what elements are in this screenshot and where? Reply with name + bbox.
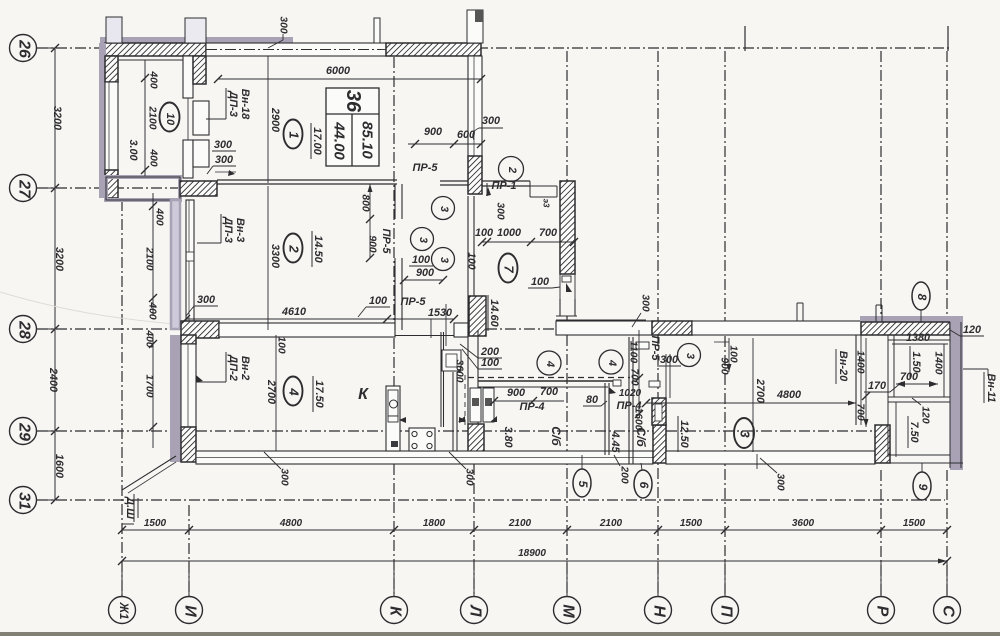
- right wall window band (x468): [468, 56, 482, 156]
- svg-text:100: 100: [276, 336, 287, 353]
- svg-text:Вн-18: Вн-18: [239, 89, 251, 120]
- dim 120 loggia top: [950, 324, 984, 336]
- svg-text:700: 700: [540, 386, 558, 398]
- svg-text:300: 300: [660, 354, 678, 366]
- door mark circle 2: [499, 157, 524, 182]
- bottom exterior wall left section: [196, 451, 653, 464]
- svg-text:1500: 1500: [144, 518, 167, 529]
- svg-text:29: 29: [16, 422, 33, 441]
- svg-text:3.80: 3.80: [502, 426, 514, 447]
- axis column К line: [393, 57, 395, 596]
- corridor west partition: [468, 196, 474, 330]
- svg-text:К: К: [387, 606, 404, 617]
- dim 300 lobby: [657, 354, 681, 366]
- svg-text:1700: 1700: [144, 375, 155, 398]
- label PR-1: [486, 180, 517, 196]
- dim 170 loggia: [864, 380, 902, 392]
- svg-text:2100: 2100: [508, 518, 532, 529]
- svg-text:3: 3: [438, 206, 450, 212]
- svg-text:120: 120: [920, 406, 931, 423]
- left wall purple halo upper: [99, 43, 106, 198]
- dim 300 row28 left: [186, 294, 218, 316]
- svg-text:400: 400: [148, 70, 159, 88]
- room10 inner top edge: [118, 59, 183, 61]
- dim 6000 line: [214, 65, 485, 83]
- apartment east wall at loggia: [856, 335, 861, 425]
- room ellipse 10: [160, 103, 180, 132]
- svg-text:2100: 2100: [147, 106, 158, 130]
- svg-text:200: 200: [619, 465, 630, 483]
- svg-text:2100: 2100: [599, 518, 623, 529]
- bathroom west pier hatch: [468, 424, 484, 462]
- svg-text:4: 4: [544, 360, 556, 367]
- axis column Н line: [657, 51, 659, 596]
- svg-text:4610: 4610: [281, 306, 306, 318]
- svg-text:3200: 3200: [53, 247, 65, 271]
- axis column circle Ж1: [109, 561, 136, 624]
- room ellipse 3: [734, 418, 754, 448]
- svg-text:28: 28: [16, 320, 33, 339]
- left exterior wall hatch top: [105, 56, 118, 82]
- svg-text:9: 9: [916, 484, 930, 491]
- axis row circle 31: [10, 487, 56, 514]
- left exterior wall hatch bottom: [105, 170, 118, 198]
- svg-text:6: 6: [637, 482, 651, 489]
- kitchen-bath wall: [468, 330, 478, 424]
- svg-text:П: П: [718, 605, 735, 617]
- svg-text:700: 700: [900, 371, 918, 383]
- bath6 door jamb: [609, 380, 621, 394]
- kitchen duct lines: [441, 332, 457, 451]
- vestibule door opening: [560, 274, 575, 299]
- svg-text:14.60: 14.60: [488, 299, 500, 327]
- svg-text:8: 8: [915, 294, 929, 301]
- room10 window line: [187, 98, 189, 140]
- svg-text:4800: 4800: [776, 389, 801, 401]
- svg-text:2400: 2400: [47, 367, 59, 392]
- faint scan curve: [0, 292, 260, 330]
- dim 2700 room4: [265, 335, 277, 451]
- svg-text:900: 900: [416, 267, 434, 279]
- svg-text:17.00: 17.00: [311, 127, 323, 155]
- svg-text:э3: э3: [542, 199, 551, 208]
- svg-text:ДП-3: ДП-3: [227, 90, 239, 117]
- svg-text:300: 300: [464, 468, 475, 485]
- room ellipse 2: [284, 234, 303, 263]
- axis column circle С: [934, 561, 961, 624]
- svg-text:ПР-5: ПР-5: [412, 162, 438, 174]
- svg-text:17.50: 17.50: [313, 380, 325, 408]
- left wall dim chain rooms: [144, 193, 165, 320]
- svg-text:44.00: 44.00: [331, 121, 348, 160]
- svg-text:И: И: [182, 605, 199, 617]
- axis column Л line: [473, 51, 475, 596]
- svg-text:14.50: 14.50: [312, 235, 324, 263]
- svg-text:120: 120: [963, 324, 981, 336]
- label Vn-20: [836, 349, 849, 384]
- svg-text:700: 700: [539, 227, 557, 239]
- big room top wall purple: [860, 316, 963, 322]
- svg-text:ПР-4: ПР-4: [519, 401, 544, 413]
- duct niche marks: [636, 342, 660, 387]
- room1 area 17.00: [311, 123, 323, 159]
- axis column circle Р: [868, 561, 895, 624]
- svg-text:ДП-2: ДП-2: [227, 354, 239, 381]
- room10 dim chain: [141, 60, 159, 176]
- svg-text:3: 3: [684, 353, 696, 359]
- axis row circle 29: [10, 418, 56, 445]
- wall stub above x374: [374, 18, 380, 43]
- axis column М line: [566, 51, 568, 596]
- svg-text:1800: 1800: [423, 518, 446, 529]
- apartment stamp box: [326, 88, 379, 166]
- dim 200 bath: [614, 455, 630, 484]
- svg-text:Л: Л: [467, 605, 484, 618]
- svg-text:400: 400: [147, 301, 158, 319]
- dim 300 leader row28 right: [632, 294, 651, 327]
- dim 3600 kitchen: [454, 360, 466, 429]
- svg-text:100: 100: [466, 252, 477, 269]
- kitchen door arrows: [399, 417, 466, 423]
- svg-text:Р: Р: [874, 606, 891, 617]
- axis column circle П: [712, 561, 739, 624]
- svg-text:3600: 3600: [454, 360, 465, 383]
- door jamb room1 left lower: [193, 140, 209, 167]
- svg-text:300: 300: [214, 139, 232, 151]
- dim 100 1000 700: [475, 227, 578, 246]
- dim 120 loggia9: [912, 398, 931, 424]
- svg-text:3: 3: [738, 430, 753, 438]
- left exterior wall window band: [105, 82, 118, 170]
- left parapet purple band: [171, 200, 180, 329]
- vestibule notch: [530, 181, 557, 197]
- top wall purple halo: [100, 37, 293, 44]
- vestibule east wall hatch: [560, 181, 575, 274]
- svg-text:ПР-1: ПР-1: [491, 180, 516, 192]
- dim 1380 loggia8: [892, 332, 948, 344]
- svg-text:1400: 1400: [933, 352, 944, 375]
- svg-text:Вн-2: Вн-2: [239, 356, 251, 380]
- dim 800-900 room2: [360, 184, 378, 262]
- svg-text:4: 4: [287, 387, 302, 396]
- axis row circle 26: [10, 35, 56, 62]
- wall stub above x467: [467, 10, 483, 43]
- svg-text:10: 10: [164, 113, 176, 126]
- svg-text:700: 700: [855, 403, 866, 420]
- svg-text:5: 5: [576, 481, 590, 488]
- svg-text:85.10: 85.10: [359, 121, 376, 159]
- door swing mark kitchen: [196, 375, 203, 382]
- room10 right wall upper: [183, 56, 193, 98]
- axis column И line: [188, 505, 190, 596]
- svg-text:3600: 3600: [792, 518, 815, 529]
- svg-text:900: 900: [424, 126, 442, 138]
- svg-text:2700: 2700: [754, 378, 766, 403]
- duct inner slot: [655, 404, 662, 421]
- svg-text:1020: 1020: [619, 388, 642, 399]
- svg-text:400: 400: [148, 148, 159, 166]
- window stub x797: [797, 303, 803, 321]
- big room west line: [752, 338, 754, 452]
- dim 200 100 kitchen: [460, 344, 502, 369]
- label Vn-2 DP-2: [196, 352, 251, 382]
- dim 2900 room1: [268, 56, 281, 183]
- room ellipse 8: [912, 282, 930, 323]
- vestibule top partition: [482, 181, 530, 186]
- svg-text:3: 3: [438, 257, 450, 263]
- svg-text:3: 3: [417, 237, 429, 243]
- svg-text:2: 2: [506, 166, 518, 173]
- pier right of room 10: [193, 56, 206, 84]
- top exterior wall window band (x206-386): [206, 43, 386, 56]
- svg-text:400: 400: [144, 329, 155, 347]
- svg-text:Вн-20: Вн-20: [837, 351, 849, 382]
- svg-text:1530: 1530: [428, 307, 452, 319]
- bottom dimension chain line: [118, 526, 951, 534]
- svg-text:27: 27: [16, 179, 33, 199]
- svg-text:3.00: 3.00: [127, 139, 139, 160]
- lower left wall purple band: [170, 335, 181, 462]
- svg-text:31: 31: [16, 492, 33, 510]
- label Vn-11: [963, 369, 997, 403]
- svg-text:170: 170: [868, 380, 886, 392]
- loggia8 area 1.50: [910, 346, 922, 378]
- svg-text:300: 300: [197, 294, 215, 306]
- svg-text:4.45: 4.45: [609, 430, 621, 453]
- wall pier x469 y296-336: [469, 296, 486, 336]
- svg-text:600: 600: [457, 129, 475, 141]
- top exterior wall hatched right (x386-481): [386, 43, 481, 56]
- kitchen sink column: [386, 386, 400, 451]
- svg-text:2100: 2100: [144, 247, 155, 271]
- wall stub above x185: [185, 18, 206, 43]
- door mark circle 3 bigroom: [678, 344, 701, 367]
- svg-text:7: 7: [502, 265, 517, 273]
- svg-text:900: 900: [367, 235, 378, 252]
- dim 900 600 top: [408, 126, 485, 148]
- svg-text:7.50: 7.50: [908, 421, 920, 442]
- svg-text:3200: 3200: [51, 106, 63, 130]
- row27 wall hatched piece: [180, 181, 217, 196]
- bath door arrow 1: [458, 416, 465, 422]
- svg-text:1: 1: [287, 131, 302, 138]
- axis row circle 28: [10, 316, 56, 343]
- svg-text:1400: 1400: [855, 351, 866, 374]
- axis column circle И: [176, 561, 203, 624]
- room4 area 17.50: [313, 376, 325, 412]
- bath top wall: [478, 381, 618, 387]
- svg-text:М: М: [560, 604, 577, 618]
- rooms 1-2 partition: [217, 180, 468, 185]
- lobby partition x629: [629, 337, 633, 464]
- svg-text:6000: 6000: [326, 65, 350, 77]
- svg-text:ПР-5: ПР-5: [400, 296, 426, 308]
- lower left wall hatch pier bottom: [181, 427, 196, 462]
- row28 wall stub right of opening: [454, 323, 468, 337]
- svg-text:100: 100: [412, 254, 430, 266]
- wall stub above x745: [744, 26, 746, 51]
- svg-text:4: 4: [606, 359, 618, 366]
- svg-text:2900: 2900: [269, 107, 281, 132]
- axis row 29 line: [37, 430, 875, 432]
- row28 wall open band (4610): [219, 323, 395, 337]
- axis column П line: [724, 51, 726, 596]
- dim 4610: [182, 306, 458, 323]
- axis column Р line: [880, 51, 882, 596]
- row28 wall hatched piece (652-692): [652, 321, 692, 335]
- bottom exterior wall right section: [666, 451, 875, 464]
- room2 window band wall: [186, 200, 194, 329]
- dim 100 vestibule door: [528, 276, 560, 288]
- bath partition x605: [605, 383, 609, 455]
- axis column circle Н: [645, 561, 672, 624]
- svg-text:1380: 1380: [906, 332, 930, 344]
- dim 100 900 bigroom: [714, 338, 739, 375]
- svg-text:1000: 1000: [497, 227, 521, 239]
- wall stub above x948: [947, 26, 949, 51]
- bath door arrow 2: [490, 416, 497, 422]
- svg-text:Ж1: Ж1: [117, 601, 129, 619]
- door mark circles 3 corridor: [411, 197, 455, 271]
- svg-text:1100: 1100: [628, 341, 639, 363]
- axis column circle К: [381, 561, 408, 624]
- loggia8/9 partition: [888, 397, 950, 402]
- kitchen notch lines: [431, 304, 446, 346]
- loggia glazing west: [888, 335, 894, 457]
- svg-text:Вн-3: Вн-3: [234, 218, 246, 242]
- left wall dim chain kitchen: [144, 329, 158, 448]
- axis row 31 line: [37, 499, 945, 501]
- label D.Sh ramp: [122, 494, 138, 524]
- vent duct hatch: [652, 398, 666, 425]
- svg-text:С/б: С/б: [549, 426, 563, 446]
- loggia bottom line: [876, 455, 963, 463]
- svg-text:3300: 3300: [269, 244, 281, 268]
- room2 area 14.50: [312, 231, 324, 267]
- dim 300 300 stacked: [207, 139, 236, 176]
- loggia9 area 7.50: [908, 416, 920, 448]
- axis row 28 line: [37, 328, 861, 330]
- svg-text:2700: 2700: [265, 379, 277, 404]
- svg-text:100: 100: [481, 357, 499, 369]
- axis row circle 27: [10, 175, 56, 202]
- svg-text:1.50: 1.50: [910, 351, 922, 372]
- door mark circle 4 left: [537, 351, 561, 375]
- loggia9 inner line: [895, 402, 897, 457]
- label Vn-18 DP-3: [206, 88, 251, 120]
- axis row 27 line: [37, 187, 180, 189]
- svg-text:4800: 4800: [279, 518, 303, 529]
- svg-text:1500: 1500: [680, 518, 703, 529]
- svg-text:К: К: [358, 386, 369, 403]
- door mark circle 4 right: [599, 350, 623, 374]
- room ellipse 7: [499, 254, 518, 283]
- row27 wall outline purple: [106, 177, 180, 200]
- svg-text:80: 80: [586, 394, 598, 406]
- dim 100 row28: [358, 295, 390, 317]
- top exterior wall hatched left (x105-206): [105, 43, 206, 56]
- dim 3300 room2: [268, 186, 281, 330]
- svg-text:300: 300: [278, 16, 289, 33]
- svg-text:ПР-5: ПР-5: [380, 228, 392, 254]
- room ellipse 4: [284, 377, 303, 406]
- svg-text:300: 300: [215, 154, 233, 166]
- right wall hatch (entry side): [468, 156, 482, 194]
- svg-text:900: 900: [507, 387, 525, 399]
- svg-text:700: 700: [629, 368, 640, 385]
- svg-text:26: 26: [16, 39, 33, 58]
- room ellipse 9: [913, 463, 931, 500]
- axis column С line: [946, 51, 948, 596]
- svg-text:100: 100: [369, 295, 387, 307]
- svg-text:1500: 1500: [903, 518, 926, 529]
- lower left wall hatch top: [181, 335, 196, 344]
- room ellipse 6: [634, 463, 652, 498]
- scan strip bottom edge: [0, 632, 1000, 636]
- row28 wall open (vestibule-duct): [556, 321, 652, 335]
- axis column circle Л: [461, 561, 488, 624]
- dim 300 bottom bath: [449, 452, 475, 486]
- svg-text:ДП-3: ДП-3: [222, 216, 234, 243]
- svg-text:800: 800: [360, 194, 371, 211]
- dim 100 x469 leader: [466, 252, 477, 269]
- label Vn-3 DP-3: [197, 214, 246, 243]
- svg-text:18900: 18900: [518, 548, 546, 559]
- kitchen stove: [409, 428, 435, 451]
- corner diagonal 2: [128, 462, 176, 493]
- bath lintel dashed: [468, 377, 630, 379]
- window stub x876: [876, 305, 882, 322]
- bath fixture 1: [470, 388, 481, 422]
- dim 1400 loggia8 right: [933, 344, 945, 397]
- door jamb room1 left: [193, 101, 209, 135]
- room ellipse 5: [573, 455, 591, 497]
- room10 right wall lower: [183, 140, 193, 178]
- bottom wall hatched pier (x653): [653, 425, 666, 463]
- svg-text:300: 300: [495, 202, 506, 219]
- wall stub above x106: [106, 17, 122, 43]
- dim 1400 700 loggia left: [855, 338, 871, 427]
- left dimension chain line: [51, 44, 59, 504]
- svg-text:300: 300: [640, 294, 651, 311]
- dim 300 bigroom leader: [760, 458, 786, 491]
- dim 80 bath: [583, 394, 607, 406]
- bath east lines: [666, 354, 670, 425]
- svg-text:12.50: 12.50: [678, 420, 690, 448]
- row28 loggia top wall hatch: [861, 322, 950, 335]
- svg-text:300: 300: [775, 473, 786, 490]
- bath fixture 2: [483, 388, 494, 422]
- corridor area 14.60: [488, 295, 500, 331]
- svg-text:Н: Н: [651, 605, 668, 617]
- row28 wall hatched pier left: [181, 321, 219, 338]
- dim 300 leader top right: [473, 115, 503, 140]
- dim 300 bottom kitchen: [264, 452, 290, 486]
- room2 east partition: [395, 184, 402, 330]
- svg-text:300: 300: [279, 468, 290, 485]
- loggia east wall lines: [950, 322, 961, 468]
- svg-text:300: 300: [482, 115, 500, 127]
- svg-text:Вн-11: Вн-11: [985, 373, 997, 402]
- dim 1100 700 vertical: [628, 330, 644, 418]
- overall dimension line 18900: [118, 557, 951, 565]
- axis column Ж1 line: [121, 200, 123, 596]
- dim 4800 bigroom: [642, 389, 856, 407]
- svg-text:400: 400: [154, 207, 165, 225]
- kitchen fridge: [442, 350, 461, 371]
- loggia8 top sill: [888, 339, 950, 341]
- svg-text:36: 36: [342, 90, 364, 113]
